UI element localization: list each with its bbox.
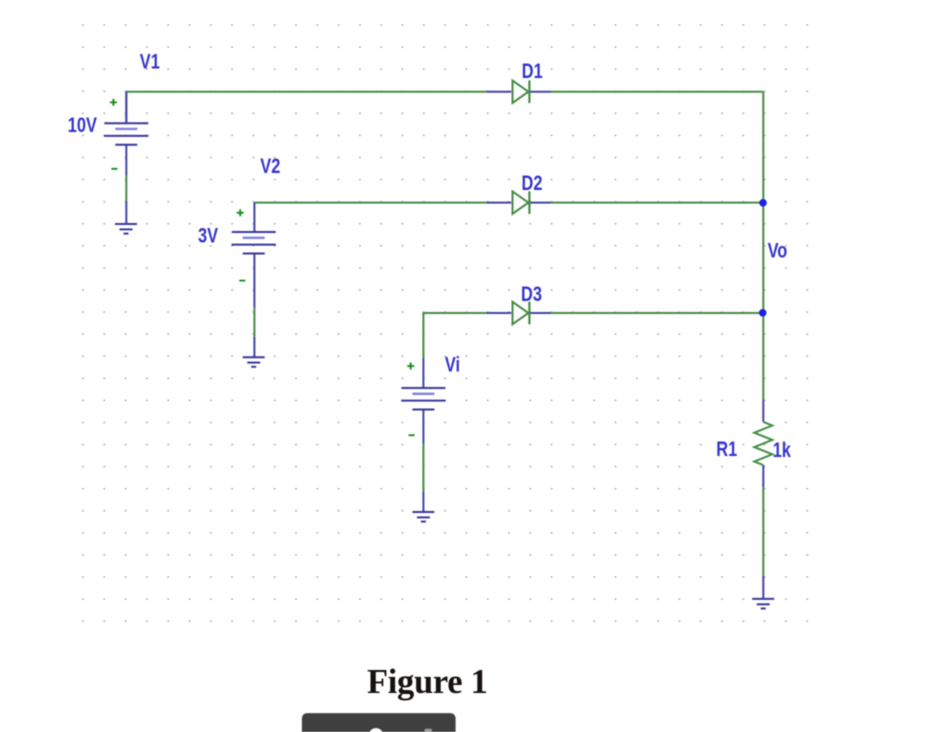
ground V2 (243, 337, 265, 367)
ground V1 (115, 201, 137, 234)
wire top row: V1 to D1 to right trunk corner (126, 92, 763, 124)
diode D3 (486, 302, 550, 325)
minus mark V1 (111, 168, 117, 170)
svg-text:Vo: Vo (768, 238, 788, 261)
voltage source V2 (3V battery) (232, 203, 276, 308)
diode D1 (486, 80, 550, 103)
wire mid row: V2 to D2 to node Vo (254, 202, 763, 204)
plus mark Vi (407, 363, 414, 370)
label V1 (140, 49, 160, 72)
wire V2 lower green segment (253, 307, 255, 337)
button (partially visible) (302, 713, 456, 732)
svg-text:R1: R1 (716, 437, 737, 460)
svg-text:V1: V1 (140, 49, 160, 72)
wire Vi lower green segment (422, 444, 424, 492)
wire V1 lower green segment (125, 176, 127, 201)
svg-text:10V: 10V (68, 113, 98, 136)
ground right trunk (752, 576, 774, 609)
svg-text:D3: D3 (521, 282, 542, 305)
label D3 (521, 282, 542, 305)
minus mark V2 (239, 280, 245, 282)
value label 3V (198, 224, 218, 247)
svg-text:D2: D2 (522, 171, 543, 194)
label Vo (768, 238, 788, 261)
svg-text:D1: D1 (522, 59, 543, 82)
svg-text:3V: 3V (198, 224, 218, 247)
label D1 (522, 59, 543, 82)
plus mark V1 (110, 99, 117, 106)
minus mark Vi (409, 434, 415, 436)
svg-text:Vi: Vi (445, 353, 460, 376)
svg-text:V2: V2 (260, 154, 280, 177)
label R1 (716, 437, 737, 460)
value label 1k (773, 438, 792, 461)
wire right trunk vertical (762, 92, 764, 576)
resistor R1 (754, 400, 772, 487)
node dot lower (759, 309, 767, 317)
label D2 (522, 171, 543, 194)
label Vi (445, 353, 460, 376)
voltage source V1 (10V battery) (104, 92, 148, 176)
ground Vi (412, 492, 434, 522)
svg-text:1k: 1k (773, 438, 792, 461)
voltage source Vi battery (401, 358, 445, 444)
node dot upper (Vo) (759, 199, 767, 207)
value label 10V (68, 113, 98, 136)
svg-text:Figure 1: Figure 1 (367, 663, 488, 701)
wire row3: Vi to D3 to lower node (423, 313, 763, 358)
label V2 (260, 154, 280, 177)
plus mark V2 (237, 209, 244, 216)
diode D2 (486, 191, 550, 214)
